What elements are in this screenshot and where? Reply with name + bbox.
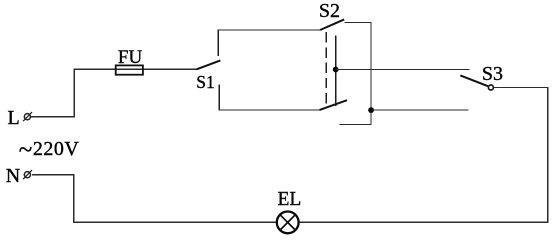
switch S1 upper contact [217, 30, 219, 56]
wire S2 lower output to S3 lower contact [371, 109, 469, 111]
terminal L [23, 112, 32, 121]
switch S3 pivot circle [488, 85, 493, 90]
svg-text:S3: S3 [482, 63, 503, 85]
switch S1 lower contact [218, 84, 220, 110]
fuse FU [116, 65, 143, 74]
node junction on S2 output (upper) [333, 67, 339, 73]
svg-text:S1: S1 [196, 72, 214, 92]
lamp EL [277, 212, 299, 234]
svg-text:L: L [8, 107, 20, 129]
svg-text:S2: S2 [319, 0, 340, 22]
svg-text:EL: EL [278, 189, 302, 210]
switch S1 blade [197, 60, 221, 69]
wire top rail S1 to S2 [218, 29, 321, 31]
terminal N [23, 170, 32, 179]
switch S3 blade [460, 75, 488, 86]
wire S2 upper output to S3 upper contact [336, 69, 470, 71]
svg-text:N: N [6, 165, 20, 187]
node junction on S2 output (lower) [368, 107, 374, 113]
switch S2 lower blade [320, 100, 347, 110]
wire L lead to fuse [31, 69, 197, 116]
svg-text:~220V: ~220V [19, 136, 80, 163]
switch S2 gang linkage (dashed) [325, 32, 327, 106]
wire S3 common to lamp loop [300, 88, 548, 223]
switch S2 cross contact vertical [335, 36, 337, 106]
wire bottom rail S1 to S2 [218, 109, 320, 111]
switch S2 upper blade [320, 19, 344, 30]
wire S2 top contact to right vertical [340, 23, 371, 125]
wire lamp to N lead [32, 175, 276, 223]
